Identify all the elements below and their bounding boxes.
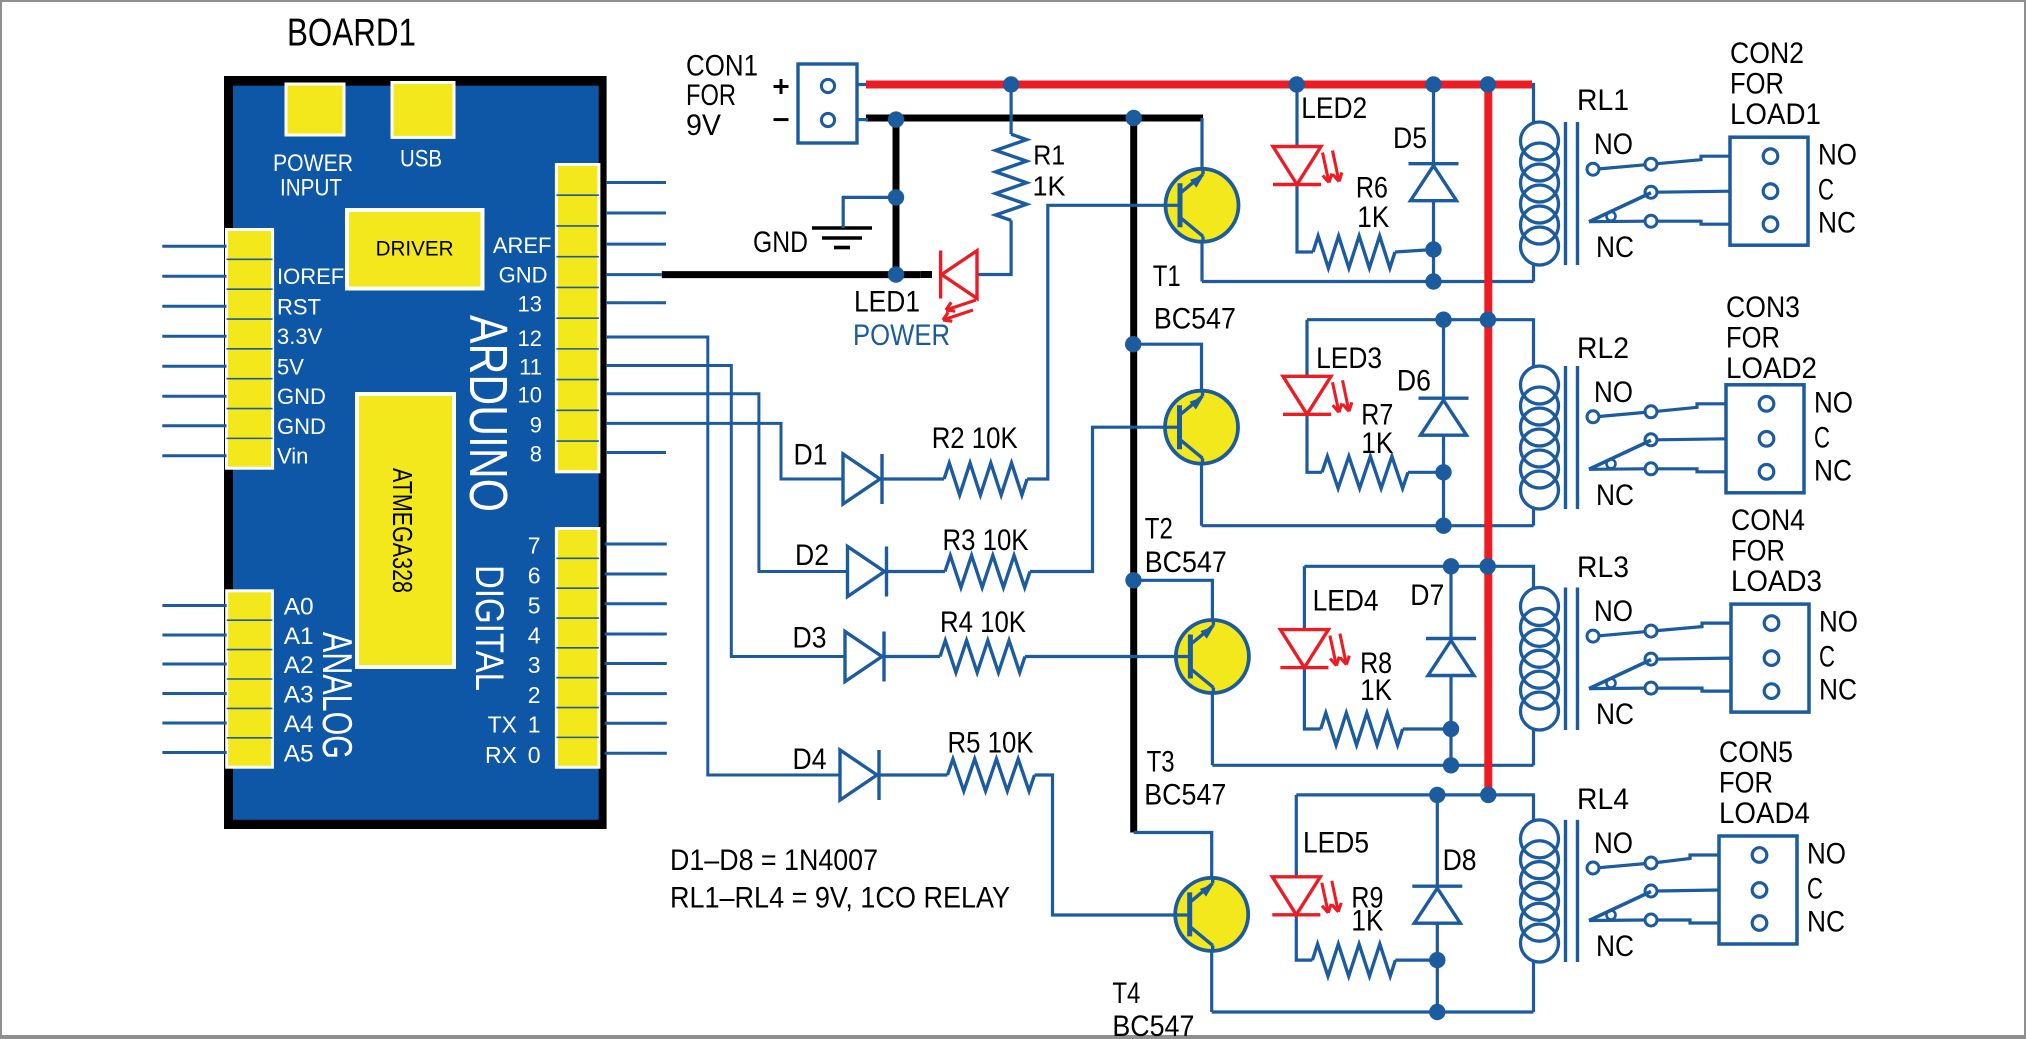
svg-text:R1: R1	[1033, 140, 1065, 171]
svg-text:NO: NO	[1807, 838, 1846, 871]
right header short pin wires	[606, 181, 666, 184]
wire R8 to D7	[1403, 727, 1451, 730]
junction dots	[888, 111, 904, 127]
wire T3 emitter to ground trunk	[1134, 580, 1213, 620]
svg-text:1: 1	[528, 712, 541, 738]
svg-text:5V: 5V	[277, 354, 304, 379]
right digital pin header lower	[556, 529, 599, 768]
wire D7 cathode up	[1449, 566, 1452, 638]
wire T3 collector down	[1211, 693, 1214, 765]
svg-text:NC: NC	[1807, 906, 1845, 939]
svg-text:NC: NC	[1814, 454, 1852, 487]
relay RL1 NO contact	[1587, 163, 1599, 175]
wire D5 anode down	[1432, 201, 1435, 282]
svg-text:RL2: RL2	[1577, 332, 1629, 365]
driver IC block	[347, 210, 483, 289]
diode D4	[840, 750, 877, 800]
resistor R9 1K	[1312, 944, 1395, 976]
svg-text:C: C	[1814, 421, 1830, 454]
wire R1 bottom to LED1	[977, 220, 1011, 274]
power input pad	[286, 84, 344, 135]
relay RL2 core	[1564, 366, 1567, 509]
wire LED5 cathode to R9	[1296, 915, 1312, 960]
svg-text:13: 13	[518, 292, 542, 317]
wire pin9 to D1	[606, 423, 843, 479]
diode D1	[843, 454, 880, 504]
wire T2 emitter to ground trunk	[1133, 344, 1201, 391]
svg-text:GND: GND	[499, 263, 548, 288]
wire R1 top from 9V bus	[1009, 85, 1012, 135]
diode D5 1N4007	[1409, 162, 1459, 165]
svg-text:FOR: FOR	[1719, 767, 1773, 800]
resistor R4 10K	[940, 641, 1025, 673]
svg-text:ARDUINO: ARDUINO	[458, 315, 518, 512]
svg-text:5: 5	[528, 592, 541, 618]
wire D6 cathode up	[1442, 320, 1445, 399]
wire R9 to D8	[1395, 958, 1437, 961]
transistor T3 BC547	[1176, 620, 1249, 693]
USB pad	[392, 83, 454, 138]
svg-text:NC: NC	[1596, 479, 1634, 512]
svg-text:LED2: LED2	[1301, 92, 1367, 125]
svg-text:FOR: FOR	[1726, 321, 1780, 354]
connector CON1 9V input	[798, 64, 857, 143]
ground wire vertical at CON1	[893, 115, 900, 275]
svg-text:RX: RX	[485, 742, 517, 768]
svg-text:INPUT: INPUT	[280, 174, 342, 201]
wire T1 emitter to ground wire	[1200, 118, 1203, 169]
svg-text:7: 7	[528, 533, 541, 559]
wire GND symbol stub	[843, 197, 896, 228]
diode D8 1N4007	[1412, 885, 1462, 888]
svg-text:NC: NC	[1596, 698, 1634, 731]
wire D8 cathode up	[1436, 795, 1439, 886]
svg-text:RST: RST	[277, 294, 321, 319]
ground trunk vertical	[1130, 115, 1137, 833]
left power pin header	[227, 230, 273, 469]
relay RL2 armature	[1589, 440, 1651, 469]
svg-text:POWER: POWER	[853, 319, 950, 352]
wire T1 collector down	[1200, 242, 1203, 282]
resistor R2 10K	[944, 463, 1027, 495]
svg-text:RL1: RL1	[1577, 84, 1629, 117]
wire channel 3 bottom line	[1212, 764, 1533, 767]
svg-text:D5: D5	[1393, 122, 1427, 155]
svg-text:T1: T1	[1153, 260, 1181, 293]
svg-text:1K: 1K	[1033, 171, 1066, 202]
wire CON1 minus stub	[857, 118, 868, 121]
svg-text:LED4: LED4	[1313, 585, 1379, 618]
svg-text:10: 10	[518, 383, 542, 408]
plus sign	[774, 85, 789, 88]
svg-text:CON2: CON2	[1730, 37, 1804, 70]
svg-text:1K: 1K	[1357, 201, 1389, 234]
connector CON4	[1731, 604, 1809, 712]
svg-text:1K: 1K	[1360, 674, 1392, 707]
wire board GND pin stub	[606, 273, 662, 276]
svg-text:DIGITAL: DIGITAL	[467, 565, 511, 691]
resistor R7 1K	[1322, 456, 1408, 488]
svg-text:NO: NO	[1594, 376, 1633, 409]
svg-text:A5: A5	[284, 741, 314, 768]
relay RL4 NC contact	[1589, 918, 1645, 922]
svg-text:11: 11	[519, 355, 542, 380]
svg-text:D6: D6	[1397, 365, 1431, 398]
svg-text:IOREF: IOREF	[277, 264, 344, 289]
svg-text:NO: NO	[1814, 386, 1853, 419]
svg-text:CON5: CON5	[1719, 736, 1793, 769]
svg-text:AREF: AREF	[493, 233, 552, 258]
relay RL4 core	[1564, 820, 1567, 962]
wire R4 to T3 base	[1025, 655, 1191, 658]
svg-text:NC: NC	[1596, 930, 1634, 963]
svg-text:LOAD4: LOAD4	[1719, 797, 1810, 830]
minus sign	[774, 118, 789, 121]
wire LED3 cathode to R7	[1307, 414, 1322, 472]
wire LED2 cathode to R6	[1297, 185, 1313, 253]
svg-text:D7: D7	[1410, 579, 1444, 612]
LED LED2	[1273, 147, 1321, 185]
svg-text:RL1–RL4 = 9V, 1CO RELAY: RL1–RL4 = 9V, 1CO RELAY	[670, 882, 1010, 915]
resistor R6 1K	[1313, 236, 1395, 268]
connector CON3	[1726, 385, 1804, 493]
wire T4 collector down	[1210, 951, 1213, 1012]
wire D8 anode down	[1436, 923, 1439, 1012]
relay RL2 C contact	[1645, 434, 1657, 446]
svg-text:NO: NO	[1594, 128, 1633, 161]
wire R6 to D5	[1395, 250, 1434, 253]
LED LED5	[1272, 877, 1320, 915]
svg-text:POWER: POWER	[273, 150, 353, 177]
svg-text:NC: NC	[1819, 674, 1857, 707]
svg-text:BC547: BC547	[1145, 546, 1227, 579]
svg-text:A0: A0	[284, 594, 314, 621]
svg-text:A2: A2	[284, 652, 314, 679]
transistor T4 BC547	[1175, 878, 1248, 951]
wire channel 2 bottom line	[1202, 524, 1534, 527]
svg-text:T3: T3	[1147, 745, 1175, 778]
relay RL2 NO contact	[1587, 411, 1599, 423]
wire R2 to T1 base	[1027, 205, 1180, 479]
relay RL3 armature	[1589, 660, 1651, 689]
LED LED3	[1283, 376, 1331, 414]
relay RL3 NO contact	[1587, 630, 1599, 642]
svg-text:D1–D8 = 1N4007: D1–D8 = 1N4007	[670, 844, 878, 877]
svg-text:LOAD1: LOAD1	[1730, 98, 1821, 131]
svg-text:LED3: LED3	[1316, 342, 1382, 375]
svg-text:T2: T2	[1145, 512, 1173, 545]
relay RL3 NC contact	[1589, 686, 1645, 690]
svg-text:R3 10K: R3 10K	[943, 524, 1029, 557]
relay RL1 coil	[1532, 263, 1535, 282]
svg-text:GND: GND	[277, 414, 326, 439]
wire LED3 anode	[1305, 320, 1308, 377]
svg-text:C: C	[1807, 873, 1823, 906]
wire channel 2 top rail	[1307, 320, 1534, 366]
wire D4 to R5	[879, 773, 948, 776]
svg-text:C: C	[1818, 174, 1834, 207]
LED LED4	[1280, 630, 1328, 668]
svg-text:CON3: CON3	[1726, 291, 1800, 324]
svg-text:RL4: RL4	[1577, 783, 1629, 816]
svg-text:R6: R6	[1356, 171, 1388, 204]
svg-text:BOARD1: BOARD1	[287, 12, 416, 55]
svg-text:1K: 1K	[1361, 427, 1393, 460]
svg-text:12: 12	[518, 326, 542, 351]
svg-text:RL3: RL3	[1577, 551, 1629, 584]
svg-text:NO: NO	[1818, 139, 1857, 172]
svg-text:8: 8	[530, 442, 542, 467]
svg-text:LOAD2: LOAD2	[1726, 352, 1817, 385]
relay RL4 armature	[1589, 892, 1651, 921]
svg-text:R5 10K: R5 10K	[948, 727, 1034, 760]
svg-text:ATMEGA328: ATMEGA328	[387, 468, 418, 593]
wire D6 anode down	[1442, 435, 1445, 526]
wire channel 1 bottom line	[1202, 280, 1534, 283]
resistor R3 10K	[945, 556, 1030, 588]
wire 9V bus corner to RL1 coil	[1528, 85, 1534, 123]
svg-text:NC: NC	[1818, 207, 1856, 240]
svg-text:Vin: Vin	[277, 444, 308, 469]
svg-text:CON1: CON1	[686, 49, 758, 82]
svg-text:D8: D8	[1443, 844, 1477, 877]
9V positive bus	[866, 81, 1532, 89]
svg-text:NO: NO	[1594, 595, 1633, 628]
svg-text:T4: T4	[1112, 977, 1140, 1010]
svg-text:BC547: BC547	[1154, 303, 1236, 336]
resistor R8 1K	[1321, 713, 1403, 745]
relay RL4 coil	[1532, 960, 1535, 1012]
wire pin11 to D3	[606, 366, 845, 657]
svg-text:D1: D1	[794, 438, 828, 471]
diode D6 1N4007	[1419, 397, 1469, 400]
svg-text:FOR: FOR	[1731, 535, 1785, 568]
wire channel 4 bottom line	[1212, 1010, 1534, 1013]
relay RL3 core	[1564, 588, 1567, 731]
svg-text:NC: NC	[1596, 231, 1634, 264]
left analog pin header	[227, 591, 273, 767]
svg-text:0: 0	[528, 742, 541, 768]
svg-text:NO: NO	[1819, 606, 1858, 639]
svg-text:4: 4	[528, 623, 541, 649]
svg-text:6: 6	[528, 563, 541, 589]
svg-text:D2: D2	[795, 539, 829, 572]
relay RL4 NO contact	[1587, 862, 1599, 874]
svg-text:GND: GND	[277, 384, 326, 409]
svg-text:NO: NO	[1594, 827, 1633, 860]
svg-text:D3: D3	[793, 622, 827, 655]
wire D2 to R3	[887, 570, 946, 573]
relay RL2 NC contact	[1589, 467, 1645, 471]
svg-text:3: 3	[528, 652, 541, 678]
analog header pin wires	[162, 604, 226, 607]
svg-text:FOR: FOR	[1730, 68, 1784, 101]
wire channel 4 top rail	[1296, 795, 1533, 820]
wire T4 emitter to ground trunk	[1134, 833, 1212, 879]
relay RL1 armature	[1589, 193, 1651, 222]
svg-text:DRIVER: DRIVER	[376, 237, 454, 260]
svg-text:R2 10K: R2 10K	[932, 422, 1018, 455]
svg-text:A3: A3	[284, 682, 314, 709]
LED LED1 power indicator	[921, 271, 932, 278]
wire CON1 plus stub	[857, 83, 868, 86]
svg-text:TX: TX	[488, 712, 517, 738]
wire R7 to D6	[1408, 471, 1444, 474]
ground wire CON1 minus to T1	[866, 115, 1203, 122]
svg-text:LED1: LED1	[854, 286, 920, 319]
relay RL3 coil	[1532, 728, 1535, 765]
svg-text:9: 9	[530, 412, 542, 437]
relay RL3 C contact	[1645, 653, 1657, 665]
ground wire from board GND pin	[662, 271, 921, 278]
wire channel 3 top rail	[1304, 566, 1533, 587]
resistor R1 1K	[996, 134, 1027, 220]
wire R3 to T2 base	[1030, 427, 1180, 571]
wire D5 cathode up	[1432, 85, 1435, 164]
right digital pin header upper	[556, 165, 599, 472]
wire D3 to R4	[884, 655, 940, 658]
svg-text:BC547: BC547	[1112, 1010, 1194, 1039]
svg-text:GND: GND	[753, 226, 808, 259]
relay RL1 core	[1564, 122, 1567, 265]
wire LED4 anode	[1303, 566, 1306, 629]
relay RL1 NC contact	[1589, 220, 1645, 224]
svg-text:2: 2	[528, 682, 541, 708]
wire T2 collector down	[1200, 464, 1203, 526]
transistor T1 BC547	[1166, 169, 1239, 242]
svg-text:1K: 1K	[1351, 905, 1383, 938]
svg-text:LOAD3: LOAD3	[1731, 565, 1822, 598]
9V positive trunk vertical	[1484, 85, 1492, 795]
wire LED2 anode	[1295, 85, 1298, 147]
wire D7 anode down	[1449, 676, 1452, 766]
wire R5 to T4 base	[1035, 775, 1190, 915]
wire LED5 anode	[1295, 795, 1298, 877]
svg-text:D4: D4	[793, 743, 827, 776]
wire D1 to R2	[882, 477, 944, 480]
svg-text:USB: USB	[400, 146, 442, 173]
diode D2	[848, 547, 885, 597]
svg-text:CON4: CON4	[1731, 504, 1805, 537]
svg-text:9V: 9V	[686, 109, 721, 142]
svg-text:LED5: LED5	[1303, 827, 1369, 860]
diode D3	[845, 632, 882, 682]
resistor R5 10K	[948, 759, 1035, 791]
svg-text:3.3V: 3.3V	[277, 324, 323, 349]
svg-text:BC547: BC547	[1144, 779, 1226, 812]
relay RL1 C contact	[1645, 186, 1657, 198]
relay RL4 C contact	[1645, 885, 1657, 897]
connector CON2	[1730, 137, 1808, 245]
lower digital header pin wires	[605, 543, 667, 546]
transistor T2 BC547	[1165, 391, 1238, 464]
svg-text:A1: A1	[284, 623, 314, 650]
svg-text:A4: A4	[284, 711, 314, 738]
relay RL2 coil	[1532, 507, 1535, 526]
left power header pin wires	[162, 245, 226, 248]
wire pin12 to D4	[606, 337, 840, 775]
ground symbol	[812, 226, 872, 230]
diode D7 1N4007	[1426, 637, 1476, 640]
svg-text:C: C	[1819, 641, 1835, 674]
svg-text:R4 10K: R4 10K	[940, 606, 1026, 639]
svg-text:FOR: FOR	[686, 79, 736, 112]
svg-text:ANALOG: ANALOG	[314, 632, 361, 759]
Arduino board BOARD1 outline	[224, 76, 607, 829]
ATMEGA328 IC block	[357, 394, 454, 667]
wire LED4 cathode to R8	[1304, 668, 1320, 729]
connector CON5	[1719, 836, 1797, 944]
wire pin10 to D2	[606, 394, 848, 572]
